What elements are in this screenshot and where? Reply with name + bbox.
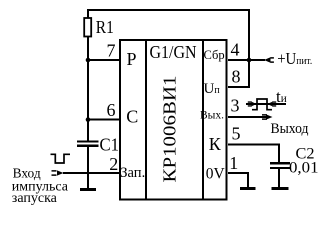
ground: C2: [272, 187, 289, 190]
svg-text:Выход: Выход: [271, 121, 310, 137]
wire: pin4/pin8 vertical riser: [248, 9, 250, 88]
arrow: tи left (points right): [248, 102, 252, 106]
capacitor C1 bottom plate: [77, 145, 99, 147]
svg-text:запуска: запуска: [12, 191, 58, 206]
svg-text:R1: R1: [96, 17, 114, 37]
ground: C1: [80, 188, 96, 191]
arrow: trigger input arrowhead: [52, 171, 57, 175]
svg-text:1: 1: [229, 153, 238, 173]
node: junction pin 4 / riser: [247, 58, 252, 63]
svg-text:0V: 0V: [206, 165, 226, 182]
arrow: tи right (points left): [272, 102, 276, 106]
svg-text:Вход: Вход: [13, 166, 41, 181]
resistor R1: [84, 18, 91, 37]
svg-text:Зап.: Зап.: [120, 165, 145, 181]
capacitor C1 top plate: [77, 140, 99, 142]
svg-text:Р: Р: [127, 49, 137, 69]
wire: R1 top lead: [87, 10, 89, 19]
svg-text:7: 7: [107, 40, 116, 60]
svg-text:КР1006ВИ1: КР1006ВИ1: [160, 76, 180, 183]
svg-text:3: 3: [231, 96, 240, 116]
wire: pin 1 stub: [228, 172, 249, 174]
dimension line for tи: [246, 103, 286, 105]
svg-text:4: 4: [231, 40, 240, 60]
svg-text:Вых.: Вых.: [200, 110, 224, 122]
wire: +U top rail from R1 top to pin-4 drop: [87, 9, 250, 11]
wire: R1 bottom lead / timing node down to C1: [87, 36, 89, 141]
IC divider: right pin column: [202, 40, 204, 199]
svg-text:С: С: [126, 107, 138, 127]
output pulse symbol: [252, 99, 272, 110]
wire: C2 top lead: [278, 144, 280, 162]
wire: pin 1 ground riser: [247, 172, 249, 188]
capacitor C2 bottom plate: [270, 167, 290, 169]
svg-text:G1/GN: G1/GN: [150, 42, 197, 62]
svg-text:6: 6: [107, 100, 116, 120]
ground: pin 1: [240, 187, 256, 190]
IC divider: left pin column: [145, 40, 147, 199]
wire: pin 3 output: [228, 116, 266, 118]
wire: C1 bottom lead to ground: [87, 147, 89, 188]
wire: trigger input to pin 2: [63, 172, 120, 174]
wire: pin 5 stub to C2: [228, 144, 280, 146]
negative trigger pulse symbol: [51, 154, 71, 163]
node: junction R1 / pin 7: [86, 58, 91, 63]
svg-text:2: 2: [109, 154, 118, 174]
wire: C2 bottom lead: [278, 169, 280, 188]
svg-text:5: 5: [232, 123, 241, 143]
wire: pin 8 stub: [228, 86, 250, 88]
wire: pin 7 stub: [88, 59, 120, 61]
svg-text:C1: C1: [100, 134, 120, 154]
arrow: output arrowhead: [266, 114, 273, 119]
svg-text:Сбр.: Сбр.: [204, 48, 228, 62]
wire: pin 6 stub: [88, 119, 120, 121]
svg-text:К: К: [209, 134, 222, 154]
capacitor C2 top plate: [270, 162, 290, 164]
arrow: supply input (points left): [264, 57, 271, 62]
op-amp U1: IC body КР1006ВИ1: [120, 40, 227, 200]
svg-text:0,01: 0,01: [289, 160, 319, 177]
node: junction pin 6 / C1: [86, 117, 91, 122]
wire: pin 4 stub to supply: [228, 59, 265, 61]
svg-text:8: 8: [232, 66, 241, 86]
